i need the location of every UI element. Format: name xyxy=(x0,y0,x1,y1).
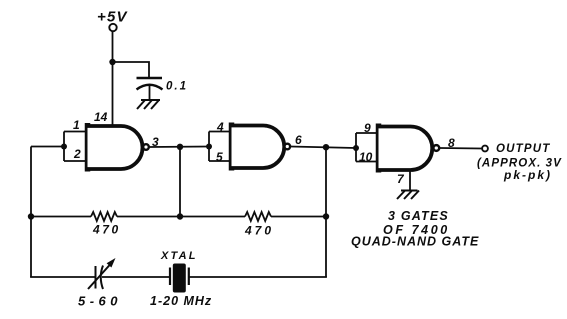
capacitor C1 0.1 (bypass) xyxy=(137,78,163,100)
wire: gate1 output to gate2 input xyxy=(150,146,210,149)
svg-text:QUAD-NAND GATE: QUAD-NAND GATE xyxy=(351,235,479,249)
wire: gate 2 input pins 4,5 tie xyxy=(209,132,230,162)
svg-text:3 GATES: 3 GATES xyxy=(388,209,449,223)
svg-text:+5V: +5V xyxy=(97,9,129,26)
wire: +5V down to pin 14 xyxy=(112,32,114,127)
junction: gate 2 input node xyxy=(206,144,212,150)
svg-text:XTAL: XTAL xyxy=(160,250,198,262)
wire: gate3 output to OUTPUT terminal xyxy=(440,147,482,150)
wire: gate 3 input pins 9,10 tie xyxy=(356,133,377,162)
wire: rail segment to R1 xyxy=(31,216,91,218)
+5V supply terminal xyxy=(109,24,116,31)
junction: rail / gate2-out vertical xyxy=(323,213,329,219)
resistor R1 470 xyxy=(91,212,117,221)
svg-text:5-60: 5-60 xyxy=(78,294,122,309)
arrowhead of variable capacitor xyxy=(107,258,116,268)
svg-text:1-20 MHz: 1-20 MHz xyxy=(150,294,212,308)
wire: varcap to crystal xyxy=(102,276,170,278)
wire: rail segment R2 to right xyxy=(271,216,326,218)
ground (bypass capacitor) xyxy=(137,100,160,109)
svg-text:470: 470 xyxy=(92,223,121,237)
wire: down to R1 rail xyxy=(179,147,181,217)
junction: gate 1 input node xyxy=(61,144,67,150)
OUTPUT terminal xyxy=(482,146,488,152)
svg-text:14: 14 xyxy=(94,110,108,124)
wire: gate2 output to gate3 input xyxy=(291,147,356,149)
wire: bottom feedback left segment xyxy=(30,276,95,278)
junction: rail / gate1-out vertical xyxy=(177,213,183,219)
wire: rail segment R1 to R2 xyxy=(117,216,245,218)
svg-text:6: 6 xyxy=(295,133,302,147)
wire: pin 7 to ground xyxy=(409,172,411,191)
junction: left rail / R1 xyxy=(28,213,34,219)
junction: gate 3 input node xyxy=(353,145,359,151)
junction: supply / bypass cap xyxy=(109,59,115,65)
junction: node gate1 out / R1 xyxy=(177,144,183,150)
wire: input node to gate 1 pins 1,2 xyxy=(31,132,86,162)
resistor R2 470 xyxy=(245,212,271,221)
ground (pin 7) xyxy=(397,191,419,200)
capacitor C2 variable 5-60 xyxy=(88,264,111,290)
op-amp U1A NAND gate 1 (7400) xyxy=(88,123,149,172)
svg-text:1: 1 xyxy=(73,118,80,132)
svg-text:470: 470 xyxy=(244,224,274,238)
svg-text:2: 2 xyxy=(73,147,81,161)
svg-text:pk-pk): pk-pk) xyxy=(503,168,552,182)
wire: junction to bypass capacitor xyxy=(113,62,150,78)
op-amp U1C NAND gate 3 (7400) xyxy=(379,124,440,173)
svg-text:OUTPUT: OUTPUT xyxy=(496,143,550,155)
wire: crystal to right feedback vertical xyxy=(189,276,327,278)
svg-text:0.1: 0.1 xyxy=(166,81,188,93)
op-amp U1B NAND gate 2 (7400) xyxy=(232,123,291,171)
junction: node gate2 out / R2 xyxy=(323,144,329,150)
wire: left feedback vertical xyxy=(30,147,32,278)
wire: down through R2 rail to bottom feedback xyxy=(325,147,327,277)
crystal Y1 XTAL xyxy=(170,264,189,293)
